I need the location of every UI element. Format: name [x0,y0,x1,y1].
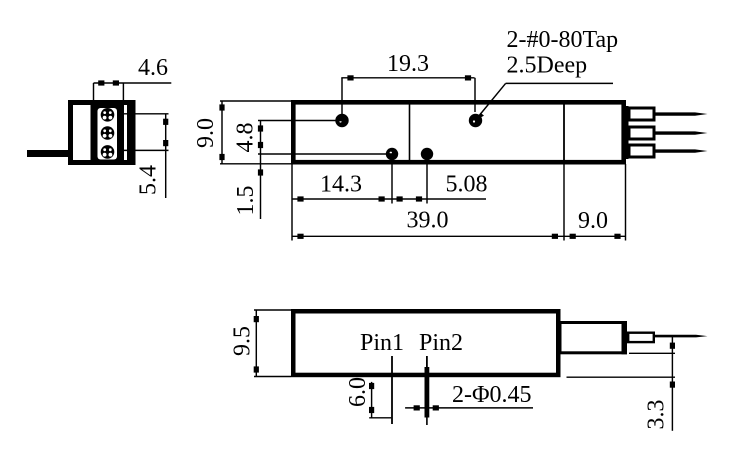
extension below hole4 [426,160,428,204]
dim 19.3 extension lines [341,78,343,115]
svg-text:2.5Deep: 2.5Deep [507,53,588,79]
dim 9.5 dimension line [255,310,257,377]
sleeve bottom extension line [629,352,675,354]
extension below divider [563,163,565,241]
dim 19.3 dimension line [341,77,474,79]
svg-text:4.8: 4.8 [233,123,259,153]
pin 2 [426,356,428,367]
dim 4.6 dimension line [94,82,172,84]
dim 5.4 extension lines [124,113,169,115]
dim 6.0 extension line [369,417,391,419]
extension below right edge [625,164,627,241]
svg-text:14.3: 14.3 [320,172,362,198]
tapped hole 1 [335,114,348,127]
screw hole 1 [101,108,115,122]
svg-text:4.6: 4.6 [138,55,168,81]
dim 14.3 / 5.08 dimension line [292,198,486,200]
end-view right border reinforcement [127,100,136,165]
fiber wire [655,335,708,338]
svg-text:39.0: 39.0 [407,208,449,234]
dim 9.5 extension lines [254,309,291,311]
wire (left view pigtail) [27,150,69,157]
bottom-view body outline [293,311,558,375]
top-view body outline [293,102,623,162]
extension below hole3 [391,160,393,204]
svg-text:3.3: 3.3 [644,400,670,430]
end-cap divider line [563,101,565,163]
svg-text:9.0: 9.0 [578,208,608,234]
svg-text:6.0: 6.0 [345,377,371,407]
end-view ferrule slot [98,108,118,160]
dim 4.6 extension lines [93,83,95,100]
lead wire 3 [656,149,708,152]
svg-text:Pin2: Pin2 [419,330,463,356]
pin 1 [391,356,393,424]
dim 9.0 left dimension line [221,101,223,164]
mount hole 4 [421,148,433,160]
svg-text:Pin1: Pin1 [360,330,404,356]
svg-text:2-Φ0.45: 2-Φ0.45 [452,382,532,408]
svg-text:9.0: 9.0 [193,118,219,148]
extension below left edge [291,164,293,241]
lead wire 2 [656,131,708,134]
pin block 1 [629,108,654,120]
ferrule [628,333,654,342]
hole3 extension line [258,153,392,155]
lead wire 1 [656,112,708,115]
pin block 2 [629,127,654,139]
mount hole 3 [386,148,398,160]
screw hole 2 [101,126,115,140]
end-view body outline [71,103,134,163]
dim pin diameter lines [405,407,427,409]
svg-text:5.4: 5.4 [136,165,162,195]
svg-text:2-#0-80Tap: 2-#0-80Tap [507,27,619,53]
tapped hole 2 [469,114,482,127]
bottom edge extension line [220,163,293,165]
svg-text:19.3: 19.3 [387,51,429,77]
svg-text:5.08: 5.08 [446,172,488,198]
dim 6.0 dimension line [371,382,373,418]
internal divider line [409,102,411,163]
body bottom extension line [567,376,676,378]
dim 3.3 dimension line [671,336,673,431]
dim 5.4 dimension line [165,114,167,198]
screw hole 3 [101,145,115,159]
svg-text:1.5: 1.5 [233,186,259,216]
dim 4.8 / 1.5 dimension line [260,121,262,220]
connector strip [624,106,629,159]
dim 39.0 / 9.0 dimension line [292,235,626,237]
pin block 3 [629,145,654,157]
hole1 extension line [258,120,342,122]
sleeve [560,323,626,353]
end-view connector bar [91,103,125,162]
svg-text:9.5: 9.5 [230,326,256,356]
leader line to hole 2 [506,82,613,84]
top edge extension line [220,100,293,102]
